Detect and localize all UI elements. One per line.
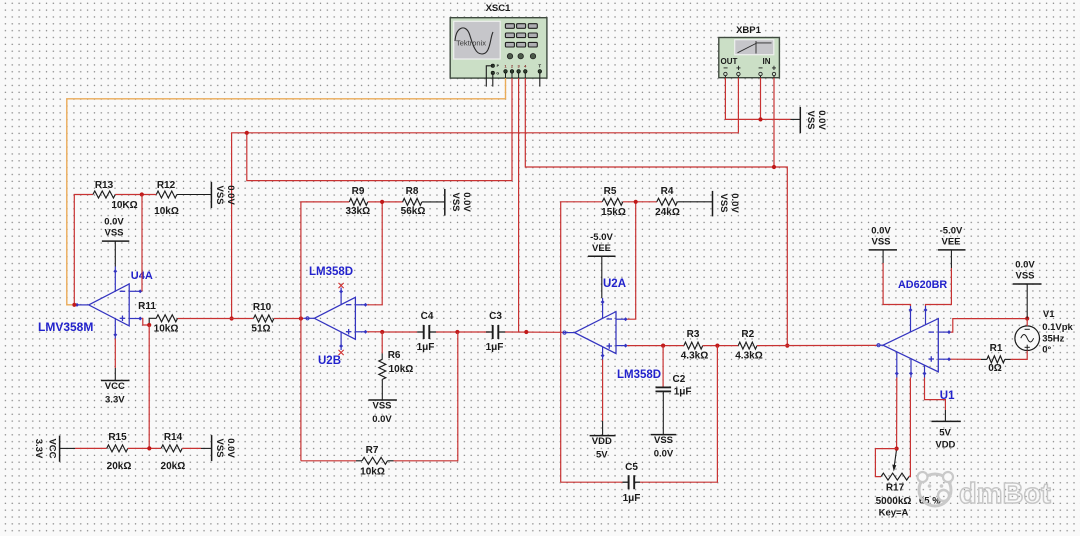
svg-text:VSS: VSS [214,185,225,204]
svg-text:+: + [736,64,741,73]
svg-text:R8: R8 [406,186,419,197]
wire R3-R2 [703,345,739,347]
resistor R15 [107,432,132,472]
capacitor C3 [486,311,505,353]
svg-text:10kΩ: 10kΩ [389,364,414,375]
svg-text:R3: R3 [687,329,700,340]
wire R2 to AD620 output [757,344,877,346]
svg-text:1μF: 1μF [623,493,641,504]
svg-text:3.3V: 3.3V [105,395,125,406]
wire VEE to AD620 V- pin [926,268,952,306]
svg-text:AD620BR: AD620BR [898,279,947,291]
source V1 sine [1015,309,1074,356]
svg-text:1μF: 1μF [674,387,692,398]
junction C4/C3 R7 node [455,330,459,334]
wire U4A feedback left loop [74,195,93,305]
svg-text:R9: R9 [352,186,365,197]
power VDD below AD620 [931,410,960,451]
wire C2 drop [662,346,664,388]
svg-text:LM358D: LM358D [309,266,353,278]
power VSS above U4A [102,217,129,267]
wire scope channel3 to C3/U2A node [518,78,520,332]
no-connect X on U2B bottom supply pin [339,350,344,355]
wire U4A plus input jog [142,318,156,325]
svg-text:5000kΩ: 5000kΩ [876,496,912,507]
svg-text:+: + [772,64,777,73]
junction U2B output / feedback loop [299,316,303,320]
power VSS right of R12 [211,182,235,208]
wire U2A feedback loop left [561,202,603,482]
svg-text:VSS: VSS [450,192,461,211]
resistor R1 [981,343,1011,374]
wire U2B plus row [367,331,417,333]
resistor R6 [379,350,414,379]
svg-text:20kΩ: 20kΩ [107,461,132,472]
wire scope channel1 (orange) to U4A output [67,78,506,305]
wire U2A minus to feedback [627,202,636,319]
junction R9/R8 minus node [380,200,384,204]
svg-text:R1: R1 [990,343,1003,354]
svg-text:5V: 5V [939,428,951,439]
power VCC below U4A [101,339,130,406]
svg-text:VSS: VSS [104,228,123,239]
capacitor C2 [656,374,692,398]
svg-text:0.0V: 0.0V [461,192,472,212]
svg-text:R10: R10 [253,302,272,313]
wire R8 to VSS [422,201,445,203]
svg-text:R12: R12 [157,180,176,191]
svg-text:VSS: VSS [372,401,391,412]
svg-text:0.0V: 0.0V [816,110,827,130]
junction ch3 tap [524,330,528,334]
svg-text:VEE: VEE [941,236,960,247]
svg-text:-5.0V: -5.0V [590,232,613,243]
svg-text:0.1Vpk: 0.1Vpk [1042,322,1073,333]
watermark text dmBot [959,478,1051,510]
resistor R12 [154,180,179,217]
svg-text:0.0V: 0.0V [225,438,236,458]
svg-text:R14: R14 [164,432,183,443]
wire XBP1 OUT+ drop to output line [737,78,739,133]
junction XBP1 IN+ on ch4 wire [772,165,776,169]
svg-text:R6: R6 [388,350,401,361]
svg-text:C3: C3 [489,311,502,322]
svg-text:VSS: VSS [654,435,673,446]
svg-text:5V: 5V [596,450,608,461]
wire R9-R8 [368,201,403,203]
wire U2B feedback loop left [301,202,349,461]
wire C5 loop right [640,346,717,483]
wire R17 right to AD620 pin8 [909,378,910,477]
wire R4 to VSS [677,201,712,203]
svg-text:51Ω: 51Ω [251,324,270,335]
resistor R5 [601,186,626,218]
svg-text:0.0V: 0.0V [225,185,236,205]
resistor R11 [138,301,178,335]
svg-text:R5: R5 [604,186,617,197]
op-amp U2B LM358D [303,266,367,367]
svg-text:R2: R2 [741,329,754,340]
wire XBP1 OUT- to VSS net [725,78,800,120]
svg-text:3.3V: 3.3V [33,439,44,459]
op-amp U2A LM358D [563,278,662,381]
svg-text:10kΩ: 10kΩ [360,467,385,478]
wire R5-R4 [623,201,657,203]
wire scope channel4 to AD620 output node [525,78,787,346]
svg-text:10KΩ: 10KΩ [111,200,137,211]
wire AD620 RG pin1 drop [896,378,898,449]
wire scope G stub [492,73,494,87]
svg-text:XSC1: XSC1 [486,3,512,14]
svg-text:U2A: U2A [603,278,626,290]
wire R12 to VSS [177,194,212,196]
potentiometer R17 [876,451,942,519]
junction ch2 tap on sense line [245,131,249,135]
svg-text:VDD: VDD [935,440,955,451]
wire V1 bottom to R1 [1011,351,1028,360]
svg-text:33kΩ: 33kΩ [345,206,370,217]
wire U2B minus to feedback [367,202,382,305]
svg-text:VSS: VSS [871,236,890,247]
svg-text:0.0V: 0.0V [1015,260,1035,271]
svg-text:0.0V: 0.0V [104,217,124,228]
wire output sense line to XBP1 OUT+ [232,133,739,319]
capacitor C5 [623,462,641,504]
junction XBP1 IN-/VSS [758,117,762,121]
svg-text:35Hz: 35Hz [1042,334,1064,345]
svg-text:0.0V: 0.0V [871,225,891,236]
svg-text:U2B: U2B [318,355,341,367]
resistor R3 [681,329,708,362]
wire R13-R12 [115,194,156,196]
svg-text:15kΩ: 15kΩ [601,207,626,218]
wire AD620 REF pin to VDD [925,378,946,411]
svg-text:VSS: VSS [805,110,816,129]
wire R1 to AD620 plus input [951,358,981,360]
junction ch4/AD620 output node riser [785,344,789,348]
svg-text:V1: V1 [1043,309,1055,320]
wire C5 loop left [561,481,623,483]
svg-text:Key=A: Key=A [879,508,909,519]
wire VCC to R15 [75,447,107,449]
svg-text:VCC: VCC [105,381,125,392]
wire scope P probe stub [486,66,493,87]
junction R3/R2 C5 node [715,344,719,348]
power VSS below C2 [651,435,677,460]
wire R15-R14 [128,447,161,449]
wire C3 to U2A output [505,331,563,333]
svg-text:R4: R4 [661,186,674,197]
svg-text:IN: IN [763,57,771,66]
resistor R10 [251,302,273,335]
svg-text:10kΩ: 10kΩ [154,324,179,335]
svg-text:4.3kΩ: 4.3kΩ [681,351,708,362]
wire scope channel2 to R10/R11 tap [247,78,512,181]
wire R6 drop [381,332,383,359]
junction R13/R12 feedback node [140,192,144,196]
svg-text:−: − [723,64,728,73]
junction R5/R4 minus node [634,200,638,204]
junction U4A output node [72,303,76,307]
junction U4A plus node [147,323,151,327]
svg-text:VSS: VSS [718,193,729,212]
svg-text:−: − [758,64,763,73]
svg-text:R7: R7 [366,445,379,456]
resistor R9 [345,186,370,217]
wire R7 loop bottom [301,460,356,462]
wire R11-R10 [178,318,254,320]
power VSS right of R4 [713,191,741,217]
wire VSS to AD620 V+ pin [883,263,910,306]
resistor R7 [356,445,394,478]
svg-text:VCC: VCC [47,438,58,458]
svg-text:C2: C2 [673,374,686,385]
power VSS above AD620 [869,225,897,263]
junction sense line at R10/R11 node [230,316,234,320]
svg-text:-5.0V: -5.0V [940,225,963,236]
svg-text:R13: R13 [95,180,114,191]
power VSS below R6 [368,400,397,425]
junction divider midpoint [147,446,151,450]
wire U2A plus row to R3 [627,345,684,347]
resistor R2 [735,329,762,362]
svg-text:G: G [496,71,499,75]
junction R17 wiper node [895,447,899,451]
svg-text:1μF: 1μF [417,342,435,353]
junction C2 tap [661,344,665,348]
power VSS above V1 [1013,260,1042,319]
svg-text:1μF: 1μF [486,342,504,353]
wire C4-C3 [436,331,490,333]
power VCC left of R15 [33,436,75,462]
resistor R13 [93,180,138,211]
svg-text:0.0V: 0.0V [729,193,740,213]
wire feedback to U4A minus input [141,195,143,292]
svg-text:C4: C4 [421,311,434,322]
instrumentation amp U1 AD620BR [877,279,956,402]
svg-text:24kΩ: 24kΩ [655,207,680,218]
wire R10 to U2B output [274,318,304,320]
svg-text:dmBot: dmBot [959,478,1051,510]
op-amp U4A LMV358M [38,267,153,339]
junction U2B plus node [380,330,384,334]
power VSS right of R8 [445,189,472,216]
power VSS at XBP1 [800,107,827,133]
wire XBP1 IN- drop [760,78,762,120]
svg-text:R15: R15 [108,432,127,443]
svg-text:0Ω: 0Ω [988,363,1002,374]
svg-text:T: T [538,63,541,68]
wire wiper node to R17 left [875,449,896,477]
resistor R8 [401,186,426,217]
capacitor C4 [417,311,436,353]
no-connect X on U2B top supply pin [339,283,344,288]
power VEE above AD620 [938,225,966,268]
power VDD below U2A [590,360,616,461]
wire C2 to VSS [662,391,664,434]
svg-text:10kΩ: 10kΩ [154,206,179,217]
svg-text:4.3kΩ: 4.3kΩ [735,351,762,362]
oscilloscope XSC1 [450,3,547,78]
svg-text:VSS: VSS [1015,271,1034,282]
svg-text:R11: R11 [138,301,156,312]
bode plotter XBP1 [719,25,780,78]
svg-text:LM358D: LM358D [617,369,661,381]
svg-text:C5: C5 [625,462,638,473]
resistor R14 [161,432,186,472]
svg-text:VDD: VDD [592,436,612,447]
wire R7 to C4/C3 node [394,332,458,461]
wire XBP1 IN+ drop [773,78,775,167]
wire U4A plus node to divider [148,325,150,448]
svg-text:0.0V: 0.0V [654,449,674,460]
wire R6 to VSS [381,379,383,400]
power VEE above U2A [588,232,616,298]
wire V1 top stub [1026,319,1028,327]
resistor R4 [655,186,680,218]
svg-text:56kΩ: 56kΩ [401,206,426,217]
svg-text:0°: 0° [1042,345,1051,356]
svg-text:LMV358M: LMV358M [38,320,93,334]
svg-text:0.0V: 0.0V [372,414,392,425]
power VSS right of R14 [212,435,236,461]
svg-text:R17: R17 [886,483,905,494]
watermark logo [918,472,954,506]
svg-text:VEE: VEE [592,243,611,254]
svg-text:20kΩ: 20kΩ [161,461,186,472]
wire AD620 minus input to V1 [951,319,1028,333]
wire scope T stub [539,73,541,87]
junction V1 top node [1025,316,1029,320]
svg-text:XBP1: XBP1 [736,25,762,36]
wire R14 to VSS [182,447,211,449]
svg-text:VSS: VSS [214,438,225,457]
svg-text:Tektronix: Tektronix [456,39,486,48]
